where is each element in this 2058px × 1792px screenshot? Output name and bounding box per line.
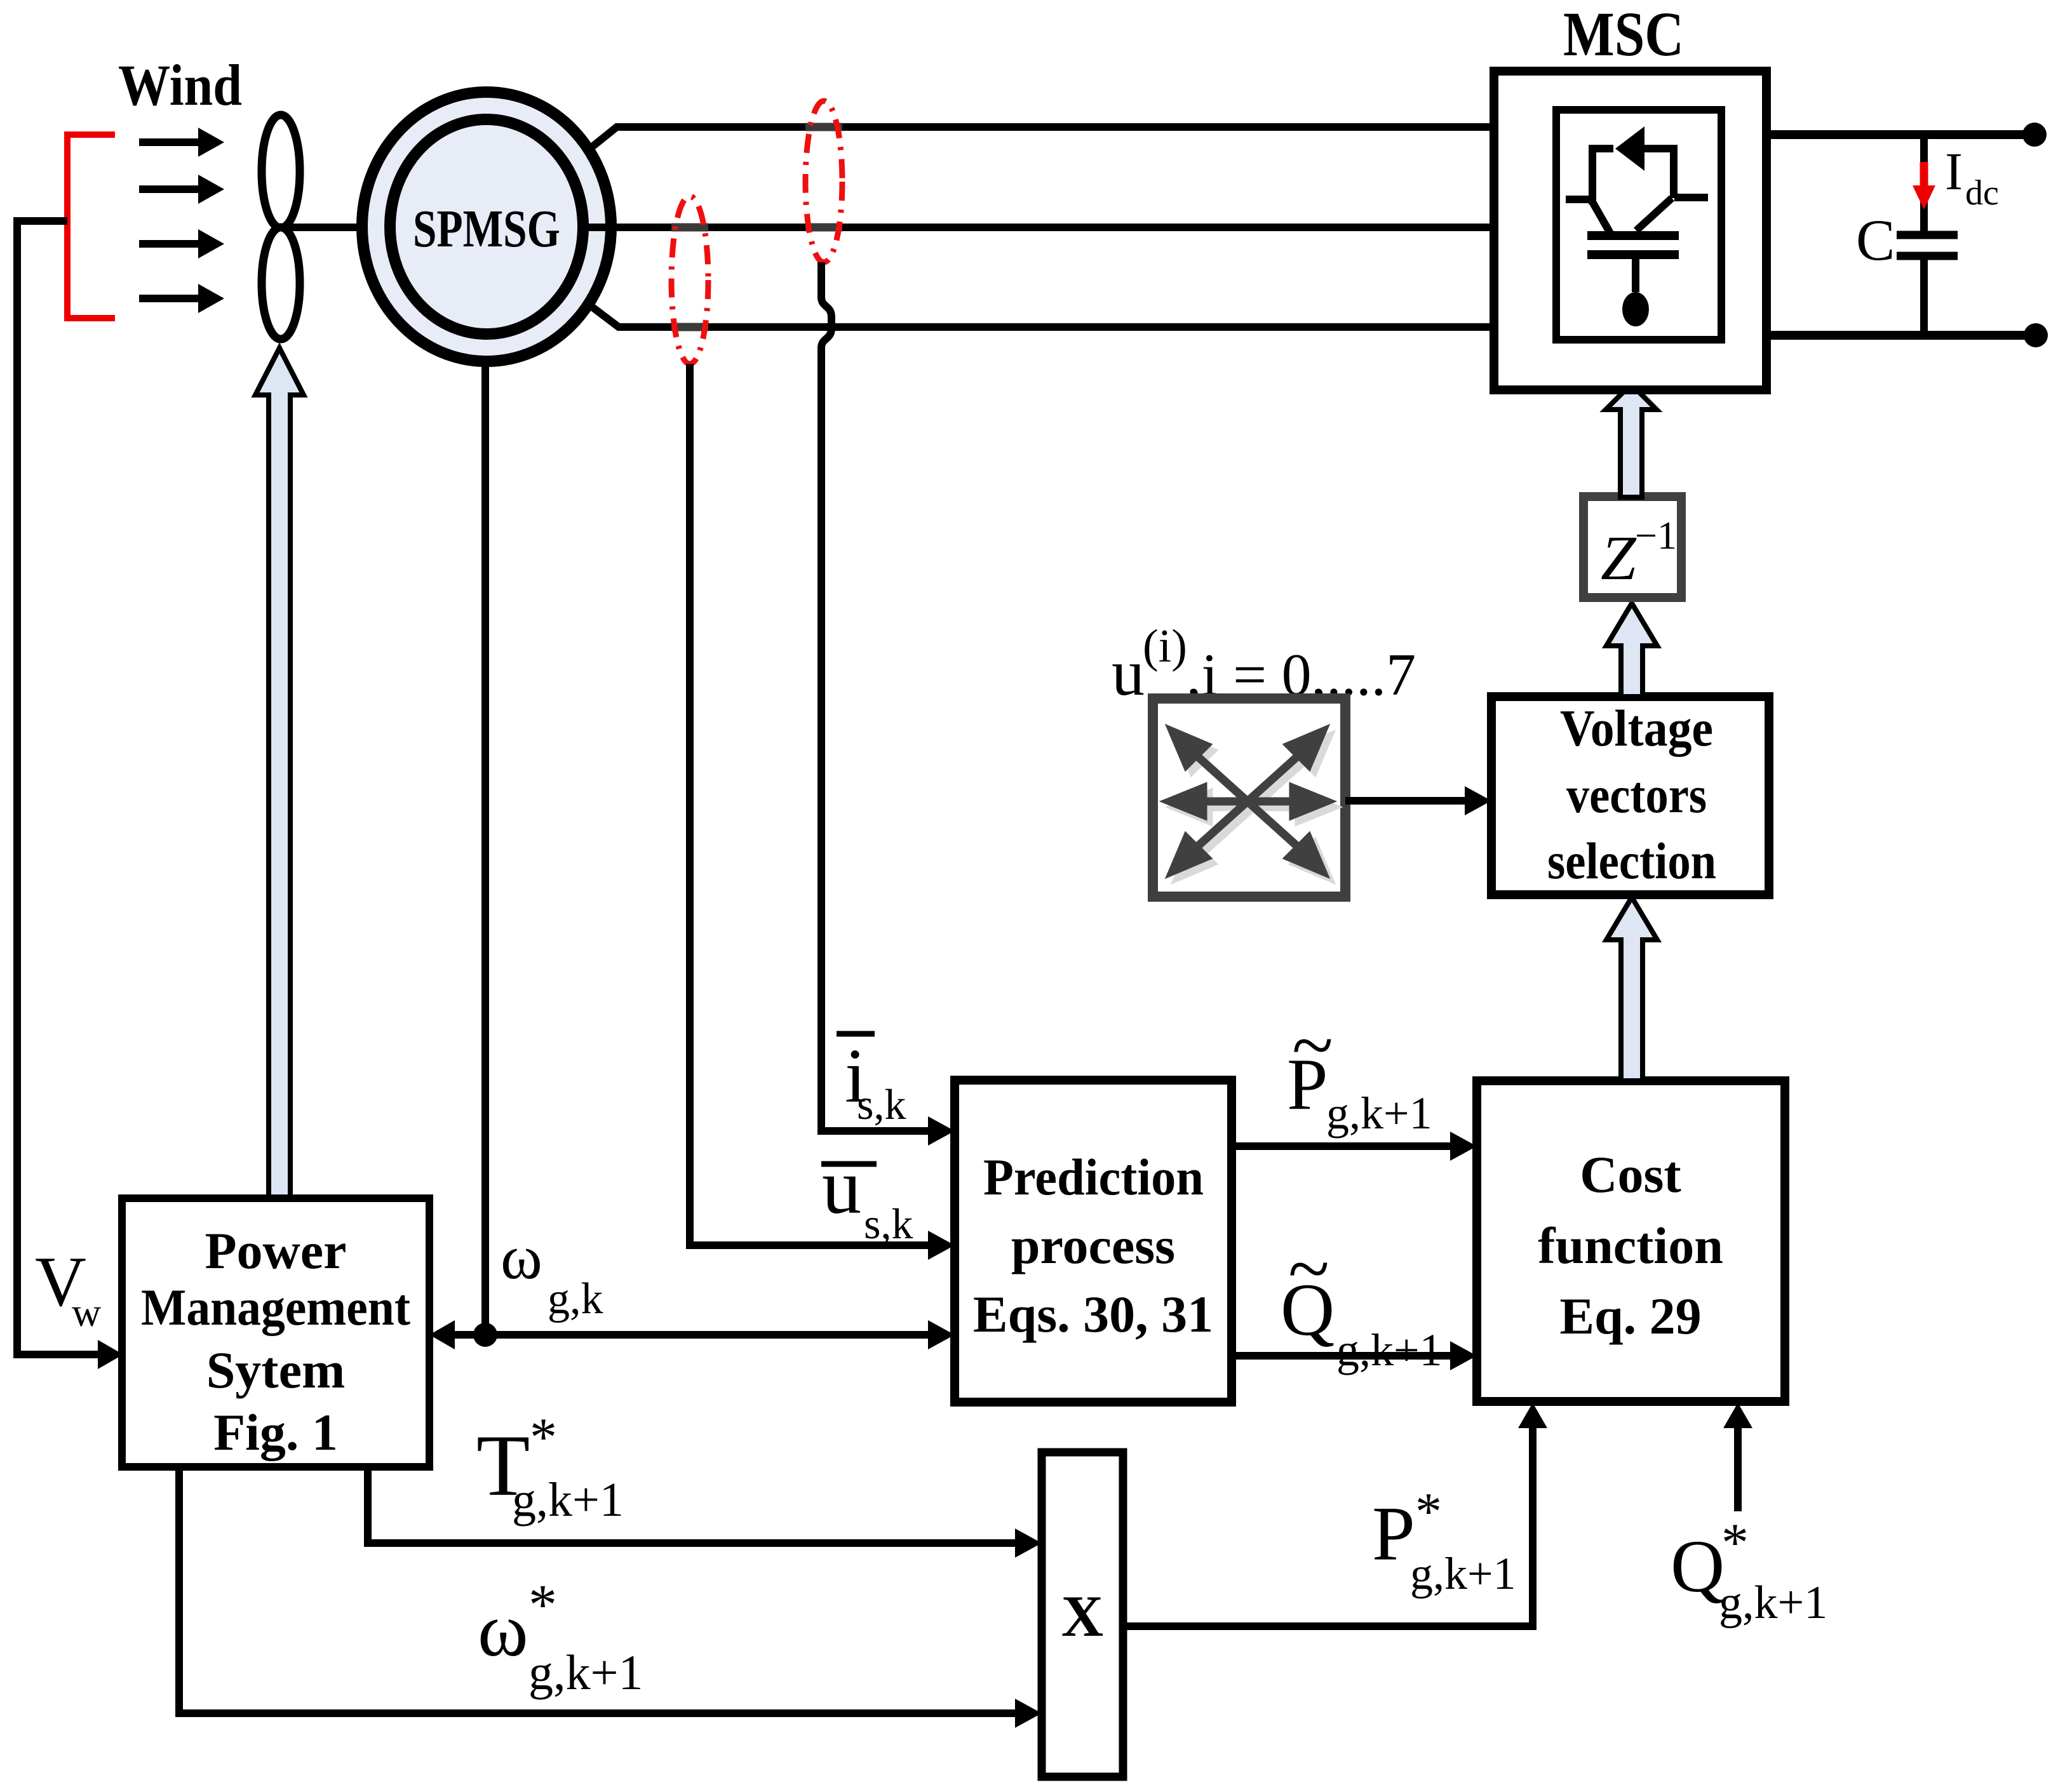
wind arrow 2 xyxy=(139,175,224,204)
wire predicted P to cost function xyxy=(1232,1132,1477,1161)
svg-text:g,k+1: g,k+1 xyxy=(528,1645,643,1700)
block prediction process xyxy=(955,1080,1232,1402)
svg-text:Wind: Wind xyxy=(118,53,242,117)
svg-text:process: process xyxy=(1011,1217,1175,1274)
wind arrow 4 xyxy=(139,284,224,313)
turbine blade lower xyxy=(262,227,300,339)
terminal dot negative xyxy=(2024,323,2048,347)
block MSC converter xyxy=(1494,71,1766,390)
block arrow Z-1 to MSC xyxy=(1606,384,1657,497)
block cost function xyxy=(1477,1081,1785,1401)
svg-text:SPMSG: SPMSG xyxy=(413,199,560,258)
svg-text:vectors: vectors xyxy=(1566,766,1707,824)
block arrow voltage vectors selection to Z-1 xyxy=(1606,603,1657,697)
block Z-1 delay xyxy=(1584,497,1681,598)
node i s,k label with overbar xyxy=(837,1033,906,1128)
svg-text:Q: Q xyxy=(1671,1525,1725,1608)
svg-text:Voltage: Voltage xyxy=(1560,699,1713,757)
svg-text:*: * xyxy=(530,1407,557,1468)
wind bracket (red) xyxy=(67,135,115,318)
svg-text:w: w xyxy=(72,1290,101,1335)
svg-text:MSC: MSC xyxy=(1563,0,1684,69)
svg-text:g,k+1: g,k+1 xyxy=(1326,1088,1432,1139)
svg-text:Eq. 29: Eq. 29 xyxy=(1559,1287,1701,1345)
turbine blade upper xyxy=(262,115,300,228)
wind arrow 3 xyxy=(139,229,224,258)
svg-text:Fig. 1: Fig. 1 xyxy=(213,1403,338,1461)
wire shaded segment under right sensor on phase b xyxy=(805,224,842,232)
wire vector set to voltage vectors selection xyxy=(1345,786,1491,815)
sensor ellipse current (red, right) xyxy=(805,101,842,262)
wire shaded segment under left sensor on phase c xyxy=(671,323,708,331)
node Vw label xyxy=(35,1243,101,1335)
node Q tilde label xyxy=(1281,1226,1443,1375)
svg-text:s,k: s,k xyxy=(857,1080,906,1128)
node omega* label xyxy=(478,1574,643,1700)
wire torque reference to multiplier xyxy=(368,1467,1042,1558)
svg-text:Power: Power xyxy=(205,1222,346,1280)
wire current measurement to prediction (with crossover jog) xyxy=(821,262,955,1146)
block Power Management System xyxy=(122,1198,429,1467)
generator SPMSG xyxy=(362,92,611,361)
node junction dot xyxy=(473,1323,497,1347)
block arrow cost function to voltage vectors selection xyxy=(1606,897,1657,1081)
node u(i) label xyxy=(1112,620,1416,709)
transistor IGBT symbol xyxy=(1566,149,1708,292)
block voltage vectors selection xyxy=(1491,697,1769,895)
wire speed to PMS and prediction (double arrow) xyxy=(429,1320,955,1349)
svg-text:Eqs. 30, 31: Eqs. 30, 31 xyxy=(973,1285,1213,1343)
svg-text:g,k+1: g,k+1 xyxy=(1719,1577,1827,1629)
svg-text:s,k: s,k xyxy=(864,1200,913,1248)
svg-text:ω: ω xyxy=(478,1588,528,1673)
block voltage vector set (star of arrows) xyxy=(1153,699,1345,897)
svg-text:Prediction: Prediction xyxy=(983,1148,1204,1206)
node u s,k label with overbar xyxy=(821,1143,913,1248)
node T* label xyxy=(476,1407,624,1527)
svg-text:X: X xyxy=(1061,1584,1103,1648)
wire turbine shaft xyxy=(281,224,368,231)
svg-text:*: * xyxy=(1721,1512,1749,1573)
node P tilde label xyxy=(1287,1003,1432,1139)
wire speed feedback from SPMSG xyxy=(481,359,489,1335)
svg-text:g,k+1: g,k+1 xyxy=(1336,1325,1443,1375)
capacitor C xyxy=(1897,135,1958,335)
wire multiplier output to cost function xyxy=(1123,1403,1547,1626)
current Idc arrow (red) xyxy=(1913,162,1935,210)
diode arrow of IGBT xyxy=(1615,126,1644,171)
node omega gk label xyxy=(501,1222,603,1323)
svg-text:C: C xyxy=(1856,208,1895,272)
sensor ellipse voltage (red, left) xyxy=(671,196,708,364)
wire Q* reference to cost function xyxy=(1723,1403,1752,1511)
wire DC negative rail xyxy=(1766,331,2031,340)
svg-text:~: ~ xyxy=(1292,1003,1333,1087)
svg-text:g,k: g,k xyxy=(548,1274,603,1323)
wire stator phase c (bottom) xyxy=(588,304,1494,327)
block arrow PMS to turbine xyxy=(255,348,304,1198)
svg-text:ω: ω xyxy=(501,1222,542,1292)
node Q* label xyxy=(1671,1512,1827,1629)
svg-text:(i): (i) xyxy=(1143,620,1187,672)
svg-text:Management: Management xyxy=(141,1278,410,1336)
svg-text:*: * xyxy=(528,1574,557,1636)
svg-text:−1: −1 xyxy=(1635,514,1677,558)
terminal dot of IGBT xyxy=(1622,292,1649,326)
svg-text:P: P xyxy=(1372,1491,1415,1577)
svg-text:*: * xyxy=(1415,1482,1442,1541)
terminal dot positive xyxy=(2022,123,2047,147)
svg-text:~: ~ xyxy=(1288,1226,1329,1311)
svg-text:I: I xyxy=(1945,142,1963,201)
block multiplier X xyxy=(1042,1452,1123,1777)
svg-text:selection: selection xyxy=(1547,832,1716,890)
wire predicted Q to cost function xyxy=(1232,1341,1477,1370)
svg-text:Z: Z xyxy=(1601,523,1637,593)
wind arrow 1 xyxy=(139,128,224,157)
wire stator phase a (top) xyxy=(588,127,1494,150)
node Idc label xyxy=(1945,142,1999,213)
svg-text:u: u xyxy=(1112,636,1145,709)
svg-text:Cost: Cost xyxy=(1580,1146,1681,1203)
wire speed reference to multiplier xyxy=(179,1467,1042,1728)
svg-text:g,k+1: g,k+1 xyxy=(1410,1548,1516,1599)
node P* label xyxy=(1372,1482,1516,1599)
wire Vw feedback from bracket to PMS xyxy=(17,221,123,1369)
wire stator phase b (middle) xyxy=(584,224,1494,231)
svg-text:Sytem: Sytem xyxy=(206,1341,346,1399)
svg-text:dc: dc xyxy=(1965,173,1999,213)
svg-text:g,k+1: g,k+1 xyxy=(512,1473,624,1527)
wire voltage measurement to prediction xyxy=(690,364,955,1260)
wire shaded segment under left sensor on phase b xyxy=(671,224,708,232)
wire shaded segment under right sensor on phase a xyxy=(805,123,842,131)
svg-text:function: function xyxy=(1538,1217,1723,1274)
svg-text:u: u xyxy=(822,1143,861,1230)
wire DC positive rail xyxy=(1766,130,2029,139)
